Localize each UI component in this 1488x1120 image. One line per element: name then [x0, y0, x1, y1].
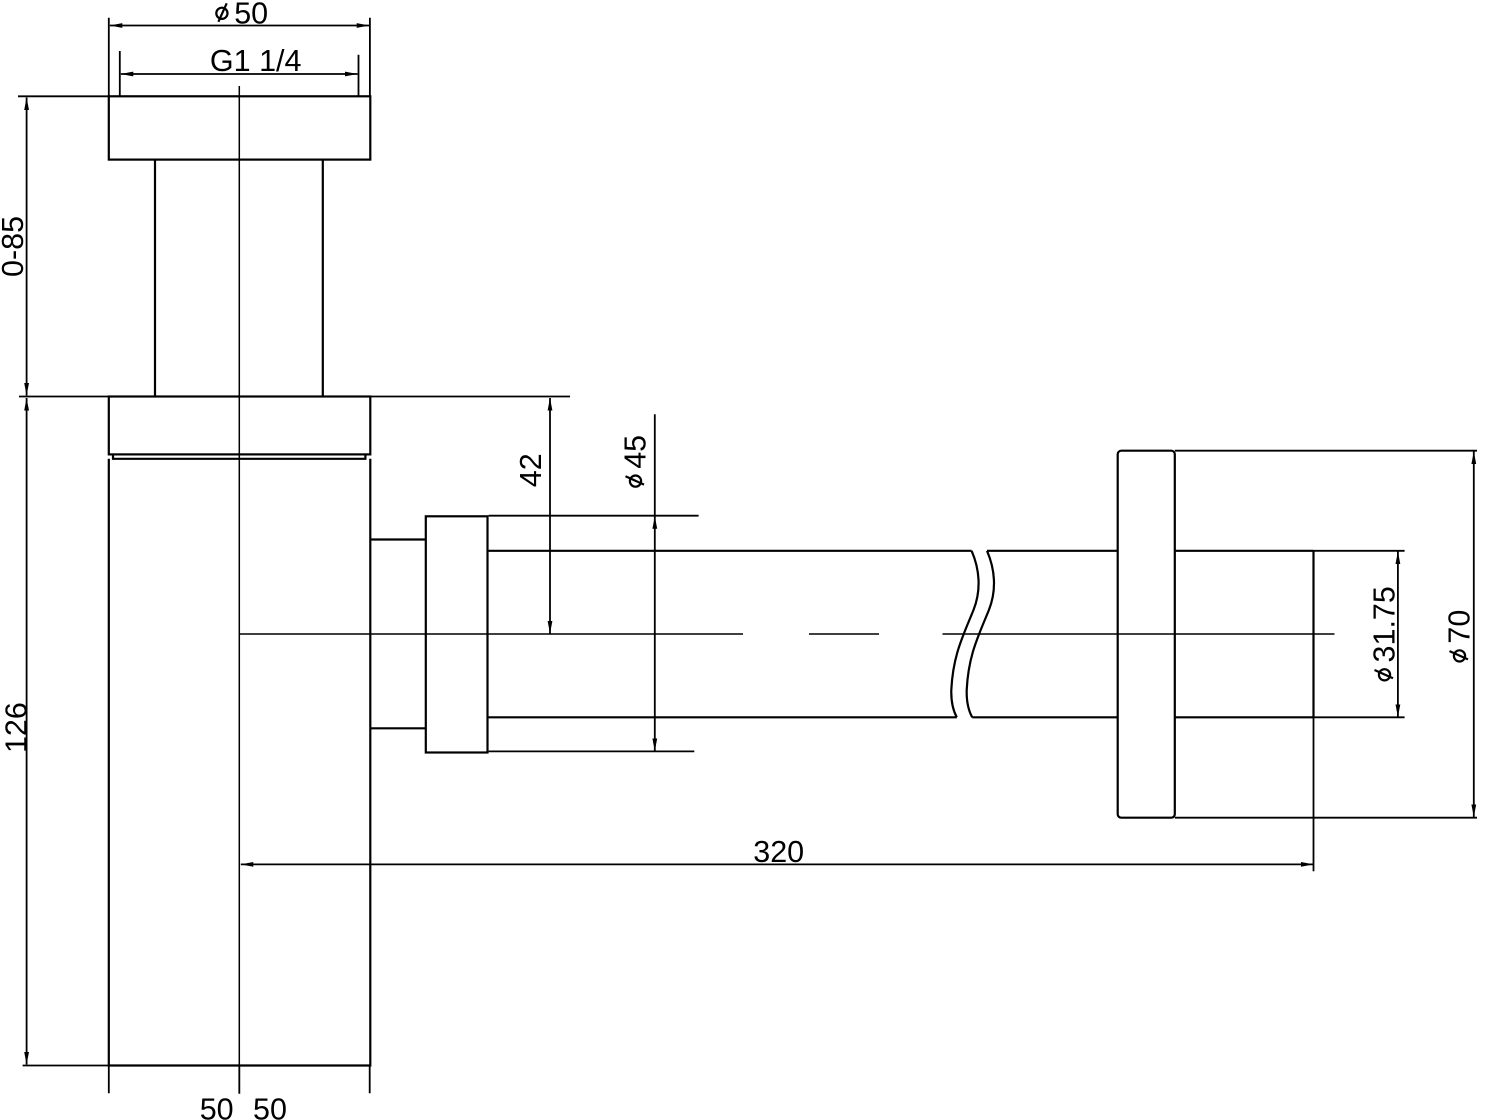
dimension ⌀45 label [619, 435, 653, 487]
svg-text:320: 320 [753, 835, 804, 869]
dimension 126 line [26, 398, 28, 1065]
svg-text:G1 1/4: G1 1/4 [210, 44, 302, 78]
dimension ⌀45 witness lines [489, 516, 699, 752]
trap upper flange [109, 397, 371, 455]
pipe break symbol right curve [967, 551, 994, 718]
dimension ⌀31.75 label [1368, 586, 1402, 680]
dimension ⌀31.75 line [1397, 552, 1399, 718]
dimension ⌀70 line [1473, 452, 1475, 818]
horizontal centerline of pipe [240, 633, 1335, 635]
wall flange (escutcheon) [1118, 451, 1175, 818]
dimension 320 witness line [1313, 717, 1315, 871]
extension line at flange top [18, 95, 109, 97]
svg-text:31.75: 31.75 [1368, 586, 1402, 662]
dimension 320 line [241, 863, 1314, 865]
dimension ⌀50 line [110, 25, 369, 27]
svg-text:126: 126 [0, 702, 34, 753]
dimension ⌀70 witness lines [1175, 451, 1477, 818]
dimension ⌀50 witness lines [109, 18, 370, 96]
stem tube [155, 160, 323, 397]
extension line at trap flange top [19, 396, 570, 398]
vertical centerline of trap [238, 86, 240, 1094]
svg-text:50: 50 [253, 1093, 287, 1120]
flange-body joint lip [113, 454, 365, 458]
dimension ⌀45 line [654, 414, 656, 751]
dimension ⌀50 label [216, 8, 227, 19]
trap body cup [109, 459, 371, 1066]
pipe break symbol left curve [951, 551, 978, 718]
pipe end edge [1312, 551, 1314, 718]
svg-text:45: 45 [619, 435, 653, 469]
horizontal outlet pipe top edge [488, 550, 1314, 552]
dimension G1 1/4 line [121, 73, 358, 75]
svg-text:50: 50 [234, 0, 268, 30]
dimension G1 1/4 witness lines [120, 51, 359, 97]
dimension ⌀31.75 witness lines [1314, 551, 1405, 718]
svg-text:42: 42 [514, 453, 548, 487]
svg-text:0-85: 0-85 [0, 216, 30, 277]
dimension 50-50 witness lines [109, 1066, 370, 1094]
svg-text:70: 70 [1443, 610, 1477, 644]
svg-text:50: 50 [200, 1093, 234, 1120]
outlet stub [370, 540, 426, 729]
horizontal outlet pipe bottom edge [488, 716, 1314, 718]
dimension 42 line [549, 398, 551, 634]
compression nut [426, 516, 488, 752]
top cap (inlet flange) [109, 96, 371, 159]
dimension 0-85 line [26, 98, 28, 396]
extension line at body bottom [23, 1065, 109, 1067]
dimension ⌀70 label [1443, 610, 1477, 662]
